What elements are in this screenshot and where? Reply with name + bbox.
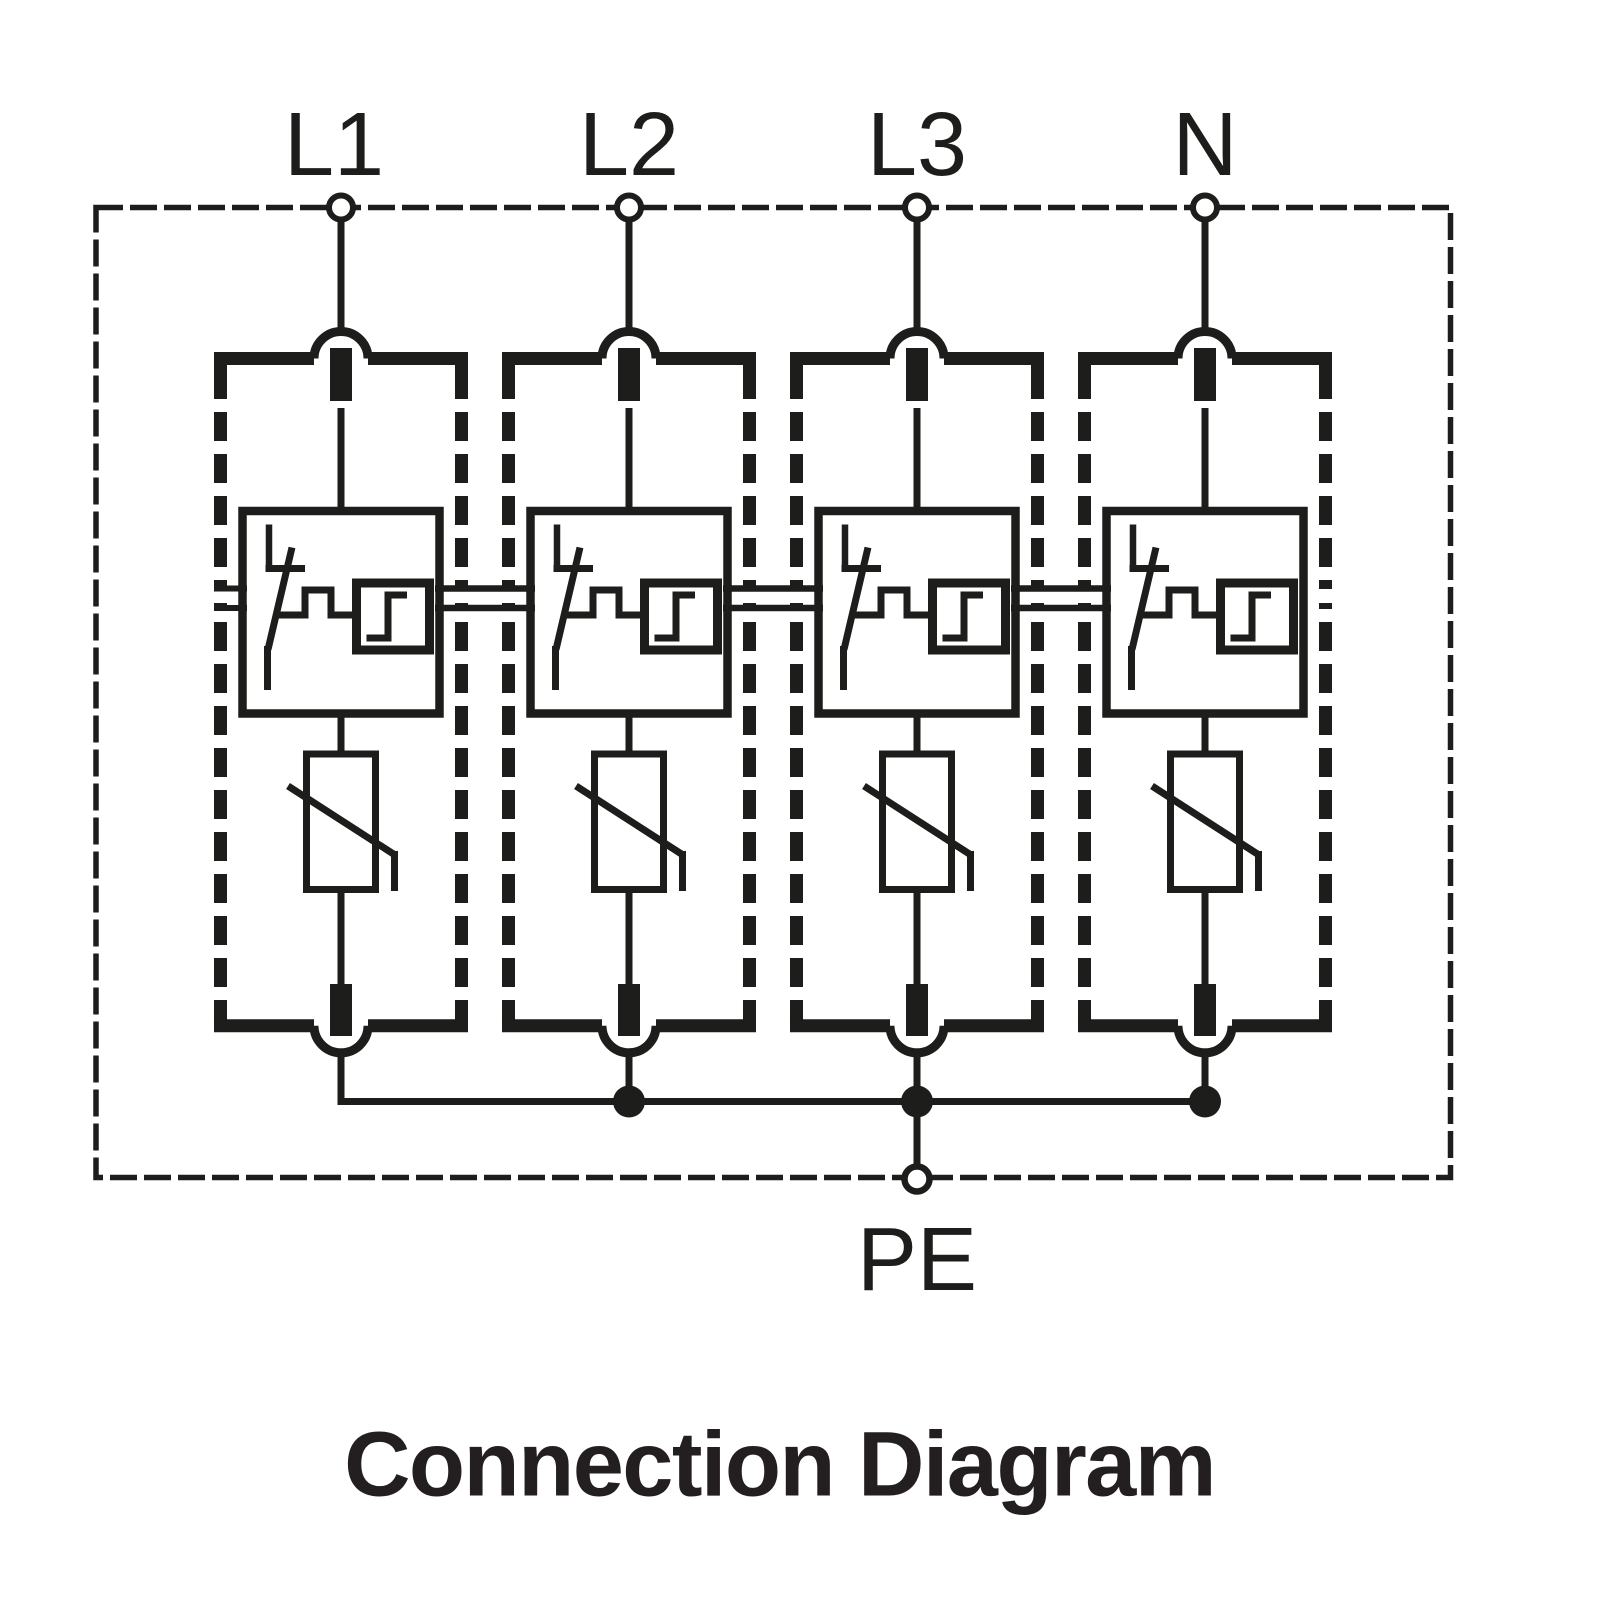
disconnector fixed contact <box>554 525 561 572</box>
step symbol in trigger box <box>655 595 696 638</box>
wire box to varistor <box>1202 717 1209 754</box>
plug-in socket arc (top) <box>890 332 944 359</box>
disconnector blade tail <box>552 646 559 690</box>
plug blade (top terminal contact) <box>330 348 352 401</box>
step symbol in trigger box <box>1231 595 1272 638</box>
wire varistor to bottom blade <box>1202 889 1209 990</box>
module bottom edge <box>214 1019 314 1032</box>
disconnector fixed contact <box>842 525 849 572</box>
terminal L1 (top circle) <box>329 196 353 220</box>
svg-text:N: N <box>1173 95 1238 195</box>
trigger box <box>1221 583 1294 650</box>
plug blade (top terminal contact) <box>906 348 928 401</box>
module border right (dashed) <box>1319 365 1332 1020</box>
disconnector blade (diagonal) <box>844 548 868 650</box>
module border right (dashed) <box>743 365 756 1020</box>
disconnector contact tick <box>1130 565 1170 572</box>
surge pulse waveform <box>563 590 644 615</box>
disconnector blade (diagonal) <box>556 548 580 650</box>
varistor diagonal tail <box>967 851 974 891</box>
module border left (dashed) <box>790 365 803 1020</box>
module border left (dashed) <box>214 365 227 1020</box>
wire box to varistor <box>626 717 633 754</box>
terminal L2 (top circle) <box>617 196 641 220</box>
varistor body <box>883 754 952 890</box>
linkage lines between module 1 and module 2 <box>435 585 535 592</box>
wire blade to disconnector box <box>914 408 921 515</box>
wire from bottom arc to PE bus <box>338 1054 345 1102</box>
plug blade (bottom terminal contact) <box>1194 984 1216 1036</box>
terminal PE (bottom circle) <box>905 1167 930 1192</box>
varistor body <box>1171 754 1240 890</box>
wire from terminal L2 to module plug <box>626 219 633 336</box>
svg-text:PE: PE <box>857 1210 977 1310</box>
terminal L3 (top circle) <box>905 196 929 220</box>
trigger box <box>645 583 718 650</box>
module bottom edge <box>790 1019 890 1032</box>
thermal disconnector box <box>819 511 1016 714</box>
junction dot N/PE bus <box>1189 1086 1221 1118</box>
surge pulse waveform <box>275 590 356 615</box>
wire varistor to bottom blade <box>338 889 345 990</box>
varistor diagonal <box>864 786 971 855</box>
junction dot L3/PE bus <box>901 1086 933 1118</box>
disconnector fixed contact <box>266 525 273 572</box>
module border left (dashed) <box>502 365 515 1020</box>
wire from bottom arc to PE bus <box>914 1054 921 1102</box>
plug-in socket arc (bottom) <box>1178 1026 1232 1053</box>
plug-in socket arc (bottom) <box>314 1026 368 1053</box>
wire blade to disconnector box <box>338 408 345 515</box>
disconnector fixed contact <box>1130 525 1137 572</box>
plug blade (top terminal contact) <box>618 348 640 401</box>
wire varistor to bottom blade <box>914 889 921 990</box>
surge pulse waveform <box>851 590 932 615</box>
disconnector blade (diagonal) <box>268 548 292 650</box>
wire bus to PE terminal <box>914 1102 921 1167</box>
module top edge <box>790 352 890 365</box>
surge pulse waveform <box>1139 590 1220 615</box>
module border left (dashed) <box>1078 365 1091 1020</box>
wire from terminal L3 to module plug <box>914 219 921 336</box>
plug-in socket arc (top) <box>602 332 656 359</box>
trigger box <box>933 583 1006 650</box>
linkage lines between module 3 and module 4 <box>1011 585 1111 592</box>
plug-in socket arc (top) <box>1178 332 1232 359</box>
step symbol in trigger box <box>367 595 408 638</box>
disconnector blade tail <box>264 646 271 690</box>
varistor diagonal <box>1152 786 1259 855</box>
plug blade (bottom terminal contact) <box>330 984 352 1036</box>
svg-text:L2: L2 <box>579 95 679 195</box>
module bottom edge <box>1078 1019 1178 1032</box>
disconnector contact tick <box>554 565 594 572</box>
wire from terminal N to module plug <box>1202 219 1209 336</box>
plug blade (bottom terminal contact) <box>618 984 640 1036</box>
varistor body <box>595 754 664 890</box>
outer enclosure (dashed) <box>96 208 1451 1178</box>
module border right (dashed) <box>1031 365 1044 1020</box>
module top edge <box>1078 352 1178 365</box>
linkage lines between module 2 and module 3 <box>723 585 823 592</box>
plug-in socket arc (bottom) <box>890 1026 944 1053</box>
wire box to varistor <box>914 717 921 754</box>
varistor diagonal tail <box>1255 851 1262 891</box>
disconnector blade (diagonal) <box>1132 548 1156 650</box>
step symbol in trigger box <box>943 595 984 638</box>
varistor diagonal tail <box>391 851 398 891</box>
thermal disconnector box <box>243 511 440 714</box>
module top edge <box>502 352 602 365</box>
wire blade to disconnector box <box>626 408 633 515</box>
wire blade to disconnector box <box>1202 408 1209 515</box>
varistor diagonal tail <box>679 851 686 891</box>
module top edge <box>214 352 314 365</box>
disconnector contact tick <box>266 565 306 572</box>
PE bus <box>338 1098 1206 1105</box>
wire from terminal L1 to module plug <box>338 219 345 336</box>
module border right (dashed) <box>455 365 468 1020</box>
varistor diagonal <box>288 786 395 855</box>
wire box to varistor <box>338 717 345 754</box>
varistor diagonal <box>576 786 683 855</box>
plug blade (top terminal contact) <box>1194 348 1216 401</box>
wire varistor to bottom blade <box>626 889 633 990</box>
linkage stub left of module 1 <box>214 586 247 592</box>
junction dot L2/PE bus <box>613 1086 645 1118</box>
disconnector blade tail <box>840 646 847 690</box>
wire from bottom arc to PE bus <box>1202 1054 1209 1102</box>
wire from bottom arc to PE bus <box>626 1054 633 1102</box>
disconnector contact tick <box>842 565 882 572</box>
plug blade (bottom terminal contact) <box>906 984 928 1036</box>
trigger box <box>357 583 430 650</box>
thermal disconnector box <box>1107 511 1304 714</box>
plug-in socket arc (top) <box>314 332 368 359</box>
svg-text:Connection Diagram: Connection Diagram <box>344 1414 1215 1516</box>
plug-in socket arc (bottom) <box>602 1026 656 1053</box>
terminal N (top circle) <box>1193 196 1217 220</box>
thermal disconnector box <box>531 511 728 714</box>
module bottom edge <box>502 1019 602 1032</box>
disconnector blade tail <box>1128 646 1135 690</box>
varistor body <box>307 754 376 890</box>
svg-text:L1: L1 <box>284 95 384 195</box>
svg-text:L3: L3 <box>867 95 967 195</box>
